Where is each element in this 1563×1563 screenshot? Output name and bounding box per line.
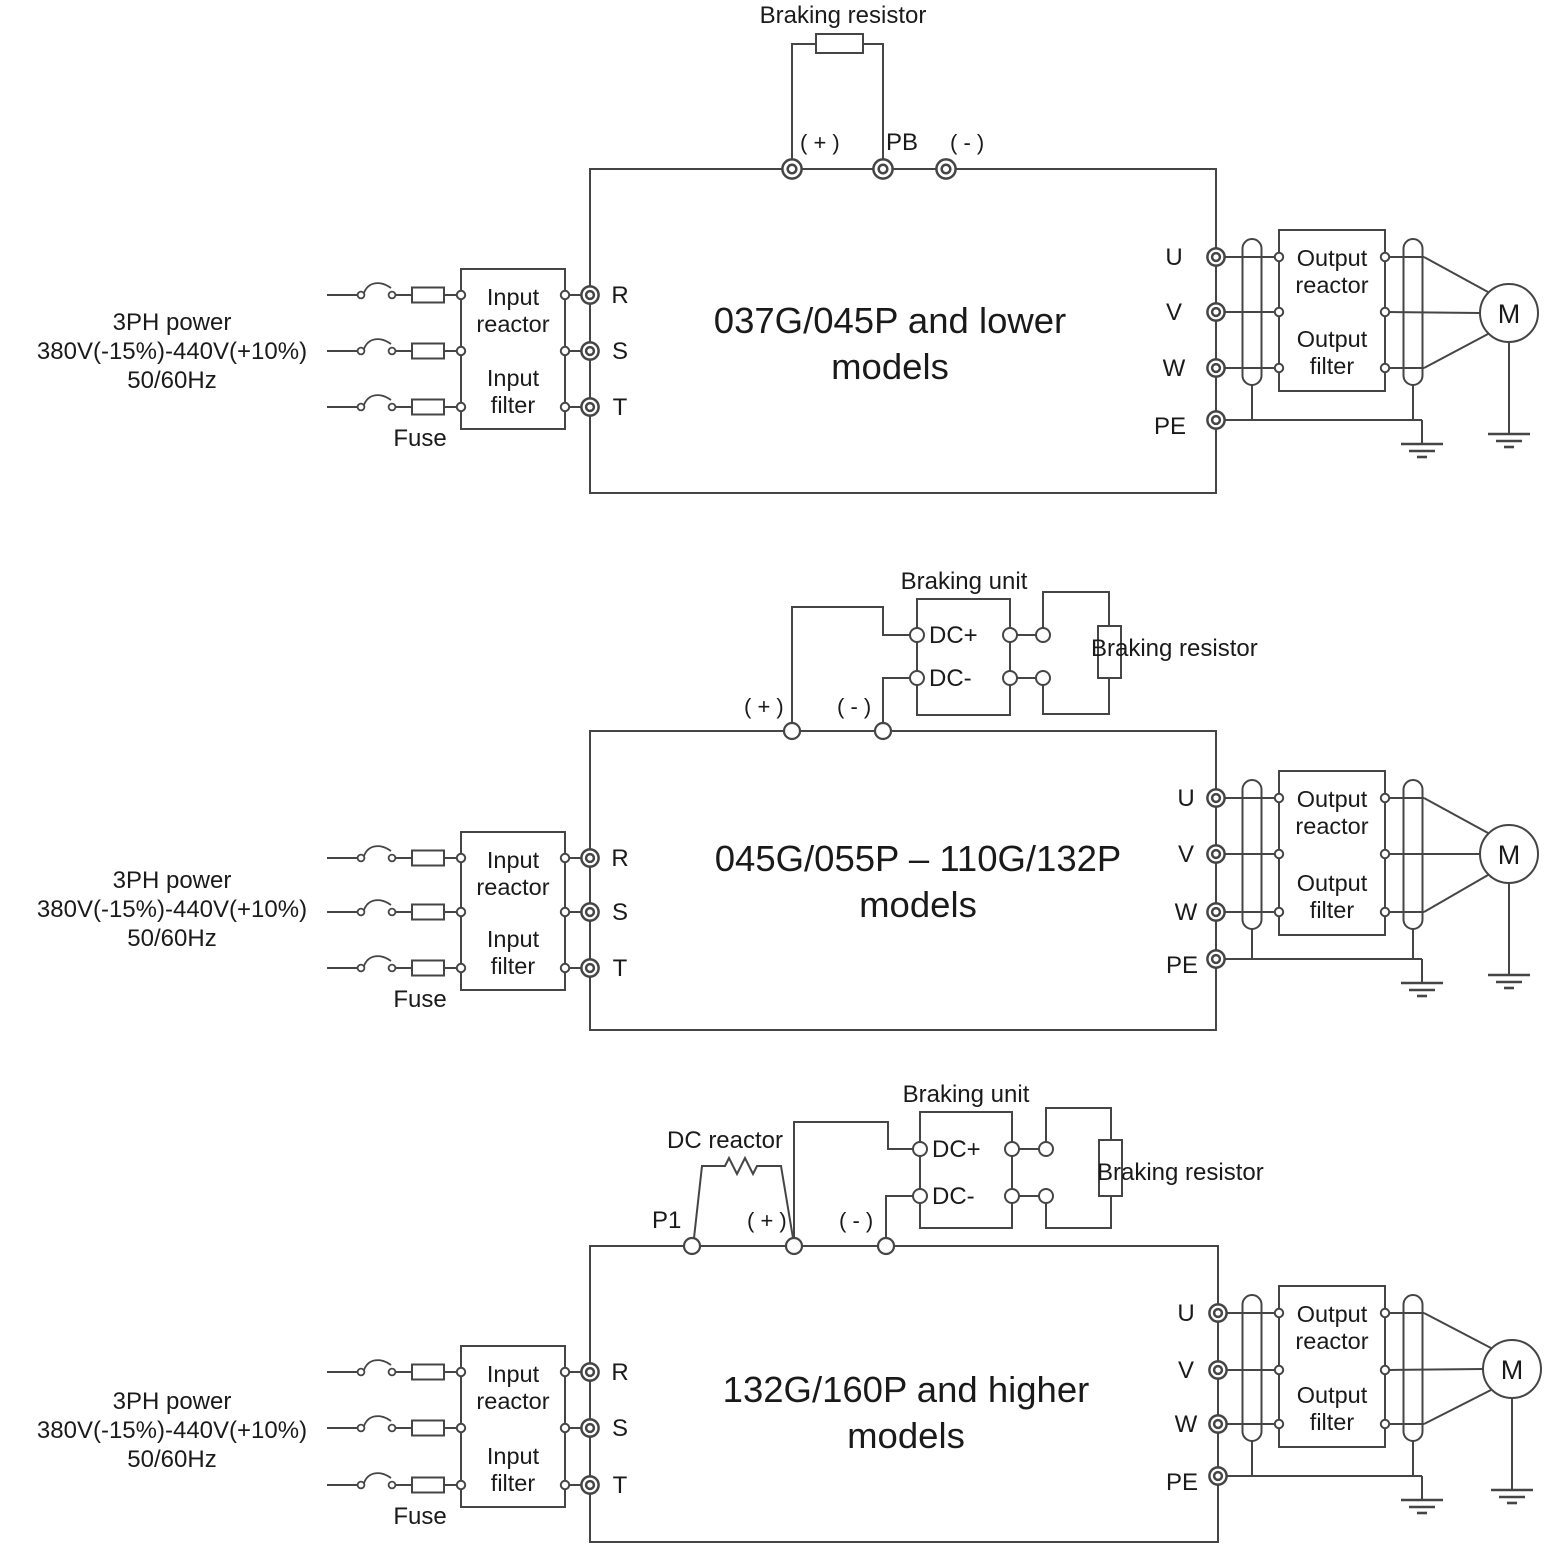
motor ground stem D3 <box>1511 1398 1513 1490</box>
svg-text:models: models <box>831 346 949 387</box>
svg-text:DC reactor: DC reactor <box>667 1127 783 1154</box>
terminal S D3 <box>581 1419 598 1436</box>
terminal (-) D1 <box>936 159 955 178</box>
wire (+) to DC+ D3 <box>794 1122 913 1238</box>
wire L2 feed D3 <box>327 1427 358 1429</box>
svg-text:DC+: DC+ <box>929 622 978 649</box>
svg-text:Input: Input <box>487 365 540 391</box>
svg-text:PE: PE <box>1166 952 1198 979</box>
svg-text:Braking resistor: Braking resistor <box>760 2 927 29</box>
breaker switch L1 D3 <box>358 1360 396 1375</box>
pin DC- D3 <box>913 1189 927 1203</box>
svg-text:Fuse: Fuse <box>393 1503 446 1530</box>
braking unit right pin bottom D3 <box>1005 1189 1019 1203</box>
svg-text:Input: Input <box>487 926 540 952</box>
breaker switch L2 D1 <box>358 339 396 354</box>
braking resistor wire left D1 <box>792 44 816 160</box>
svg-text:T: T <box>613 394 628 421</box>
braking unit right pin top D3 <box>1005 1142 1019 1156</box>
output box pin left V D3 <box>1275 1366 1283 1374</box>
inverter box D3 <box>590 1246 1218 1542</box>
output reactor/filter box D3 <box>1279 1286 1385 1447</box>
input box text D1 <box>476 284 549 418</box>
wire to terminal R D1 <box>569 294 582 296</box>
wire to terminal T D3 <box>569 1484 582 1486</box>
node (+) D3 <box>786 1238 802 1254</box>
3PH power source label D2 <box>37 867 307 952</box>
shield right drain wire D1 <box>1412 385 1414 420</box>
braking resistor loop bottom D2 <box>1043 678 1109 714</box>
resistor node bottom D3 <box>1039 1189 1053 1203</box>
breaker switch L1 D2 <box>358 846 396 861</box>
output box pin right U D1 <box>1381 253 1389 261</box>
PE wire D1 <box>1224 419 1422 421</box>
terminal V D1 <box>1207 303 1224 320</box>
PE wire D2 <box>1224 958 1422 960</box>
title D1 <box>714 300 1066 387</box>
wire (-) to DC- D3 <box>886 1196 913 1238</box>
fuse L1 D1 <box>395 288 457 303</box>
output box pin right V D3 <box>1381 1366 1389 1374</box>
svg-text:3PH power: 3PH power <box>113 867 232 894</box>
svg-text:U: U <box>1177 785 1194 812</box>
wire L3 feed D2 <box>327 967 358 969</box>
wire to terminal S D3 <box>569 1427 582 1429</box>
fuse L1 D2 <box>395 851 457 866</box>
PE ground stem D2 <box>1421 959 1423 983</box>
output box pin right W D1 <box>1381 364 1389 372</box>
svg-text:PE: PE <box>1154 413 1186 440</box>
svg-text:filter: filter <box>491 953 536 979</box>
svg-text:M: M <box>1498 840 1521 870</box>
shield left drain wire D2 <box>1251 929 1253 959</box>
braking resistor loop bottom D3 <box>1046 1196 1111 1228</box>
terminal R D3 <box>581 1363 598 1380</box>
shield left drain wire D3 <box>1251 1441 1253 1476</box>
input box pin left L1 D3 <box>457 1368 465 1376</box>
wire to terminal S D1 <box>569 350 582 352</box>
terminal R D2 <box>581 849 598 866</box>
output box pin right U D2 <box>1381 794 1389 802</box>
wire V to output box D3 <box>1226 1369 1275 1371</box>
resistor node top D3 <box>1039 1142 1053 1156</box>
terminal T D3 <box>581 1476 598 1493</box>
terminal S D1 <box>581 342 598 359</box>
svg-text:037G/045P and lower: 037G/045P and lower <box>714 300 1066 341</box>
braking resistor R D3 <box>1099 1140 1122 1196</box>
input box pin left L2 D2 <box>457 908 465 916</box>
3PH power source label D1 <box>37 309 307 394</box>
wire V to output box D2 <box>1224 853 1275 855</box>
svg-text:DC+: DC+ <box>932 1136 981 1163</box>
svg-text:V: V <box>1166 299 1182 326</box>
svg-text:Braking unit: Braking unit <box>901 568 1028 595</box>
resistor node top D2 <box>1036 628 1050 642</box>
motor ground D1 <box>1488 434 1530 447</box>
svg-text:PB: PB <box>886 129 918 156</box>
wire U to motor D3 <box>1389 1312 1424 1314</box>
input box text D3 <box>476 1361 549 1496</box>
wire U to motor D2 <box>1389 797 1424 799</box>
wire to terminal R D3 <box>569 1371 582 1373</box>
svg-text:U: U <box>1165 244 1182 271</box>
motor ground D3 <box>1491 1490 1533 1503</box>
input reactor/filter box D2 <box>461 832 565 990</box>
terminal V D3 <box>1209 1361 1226 1378</box>
PE ground D2 <box>1401 983 1443 996</box>
svg-text:filter: filter <box>491 1470 536 1496</box>
svg-text:Input: Input <box>487 284 540 310</box>
node (+) D2 <box>784 723 800 739</box>
breaker switch L3 D3 <box>358 1473 396 1488</box>
wire V to motor D3 <box>1389 1369 1483 1370</box>
wire W to output box D1 <box>1224 367 1275 369</box>
wire unit to resistor top D3 <box>1019 1148 1039 1150</box>
output box pin left W D1 <box>1275 364 1283 372</box>
svg-text:50/60Hz: 50/60Hz <box>127 367 216 394</box>
output box text D2 <box>1295 786 1368 923</box>
svg-text:filter: filter <box>1310 353 1355 379</box>
svg-text:3PH power: 3PH power <box>113 309 232 336</box>
breaker switch L1 D1 <box>358 283 396 298</box>
input box pin right L3 D3 <box>561 1481 569 1489</box>
input box pin right L1 D1 <box>561 291 569 299</box>
svg-text:Braking resistor: Braking resistor <box>1091 635 1258 662</box>
output box text D1 <box>1295 245 1368 379</box>
pin DC+ D3 <box>913 1142 927 1156</box>
output box pin right W D3 <box>1381 1420 1389 1428</box>
shield left drain wire D1 <box>1251 385 1253 420</box>
wire W to motor D1 <box>1389 367 1424 369</box>
svg-text:R: R <box>611 282 628 309</box>
output box pin left U D2 <box>1275 794 1283 802</box>
svg-text:( + ): ( + ) <box>747 1208 787 1233</box>
input box pin left L2 D3 <box>457 1424 465 1432</box>
output box pin left V D1 <box>1275 308 1283 316</box>
input box pin left L3 D3 <box>457 1481 465 1489</box>
svg-text:R: R <box>611 845 628 872</box>
output box pin left V D2 <box>1275 850 1283 858</box>
svg-text:DC-: DC- <box>929 665 972 692</box>
pin DC+ D2 <box>910 628 924 642</box>
input box pin left L3 D2 <box>457 964 465 972</box>
wire U to output box D1 <box>1224 256 1275 258</box>
breaker switch L2 D2 <box>358 900 396 915</box>
wire W to output box D2 <box>1224 911 1275 913</box>
input box pin left L3 D1 <box>457 403 465 411</box>
PE wire D3 <box>1226 1475 1422 1477</box>
svg-text:Braking unit: Braking unit <box>903 1081 1030 1108</box>
braking unit box D2 <box>917 599 1010 715</box>
fuse L3 D3 <box>395 1478 457 1493</box>
svg-text:models: models <box>847 1415 965 1456</box>
DC reactor D3 <box>694 1158 793 1238</box>
wire W to motor D3 <box>1389 1423 1424 1425</box>
motor M D1 <box>1480 284 1538 342</box>
svg-text:Output: Output <box>1297 1382 1368 1408</box>
output box pin right V D2 <box>1381 850 1389 858</box>
svg-text:3PH power: 3PH power <box>113 1388 232 1415</box>
input box pin right L3 D2 <box>561 964 569 972</box>
wire to terminal S D2 <box>569 911 582 913</box>
wire U to output box D3 <box>1226 1312 1275 1314</box>
output box pin left U D1 <box>1275 253 1283 261</box>
title D3 <box>723 1369 1090 1456</box>
svg-text:S: S <box>612 1415 628 1442</box>
svg-text:( - ): ( - ) <box>950 130 984 155</box>
terminal S D2 <box>581 903 598 920</box>
wire W to output box D3 <box>1226 1423 1275 1425</box>
wire V to motor D2 <box>1389 853 1480 855</box>
node (-) D3 <box>878 1238 894 1254</box>
terminal U D3 <box>1209 1304 1226 1321</box>
output box pin right W D2 <box>1381 908 1389 916</box>
svg-text:Braking resistor: Braking resistor <box>1097 1159 1264 1186</box>
cable shield right D1 <box>1404 239 1423 385</box>
input box pin left L2 D1 <box>457 347 465 355</box>
svg-text:( - ): ( - ) <box>837 694 871 719</box>
input box pin right L2 D3 <box>561 1424 569 1432</box>
terminal R D1 <box>581 286 598 303</box>
terminal T D1 <box>581 398 598 415</box>
PE ground D1 <box>1401 444 1443 457</box>
title D2 <box>715 838 1122 925</box>
svg-text:filter: filter <box>491 392 536 418</box>
cable shield left D2 <box>1243 780 1262 929</box>
svg-text:W: W <box>1163 355 1186 382</box>
terminal W D2 <box>1207 903 1224 920</box>
fuse L2 D1 <box>395 344 457 359</box>
braking unit right pin bottom D2 <box>1003 671 1017 685</box>
output reactor/filter box D1 <box>1279 230 1385 391</box>
output box pin left W D3 <box>1275 1420 1283 1428</box>
svg-text:filter: filter <box>1310 1409 1355 1435</box>
svg-text:Output: Output <box>1297 1301 1368 1327</box>
terminal U D2 <box>1207 789 1224 806</box>
svg-text:T: T <box>613 1472 628 1499</box>
svg-text:50/60Hz: 50/60Hz <box>127 925 216 952</box>
wire U to output box D2 <box>1224 797 1275 799</box>
terminal U D1 <box>1207 248 1224 265</box>
terminal W D1 <box>1207 359 1224 376</box>
wire L1 feed D3 <box>327 1371 358 1373</box>
svg-text:380V(-15%)-440V(+10%): 380V(-15%)-440V(+10%) <box>37 338 307 365</box>
terminal T D2 <box>581 959 598 976</box>
svg-text:M: M <box>1501 1355 1524 1385</box>
wire unit to resistor bottom D3 <box>1019 1195 1039 1197</box>
input box pin right L2 D1 <box>561 347 569 355</box>
output box pin right V D1 <box>1381 308 1389 316</box>
svg-text:Fuse: Fuse <box>393 986 446 1013</box>
input box pin right L1 D3 <box>561 1368 569 1376</box>
svg-text:Input: Input <box>487 847 540 873</box>
input box text D2 <box>476 847 549 979</box>
svg-text:W: W <box>1175 1411 1198 1438</box>
wire L2 feed D1 <box>327 350 358 352</box>
wire L2 feed D2 <box>327 911 358 913</box>
shield right drain wire D3 <box>1412 1441 1414 1476</box>
pin DC- D2 <box>910 671 924 685</box>
terminal (+) D1 <box>782 159 801 178</box>
fuse L1 D3 <box>395 1365 457 1380</box>
resistor node bottom D2 <box>1036 671 1050 685</box>
svg-text:reactor: reactor <box>1295 1328 1368 1354</box>
svg-text:R: R <box>611 1359 628 1386</box>
terminal PE D1 <box>1207 411 1224 428</box>
input box pin left L1 D1 <box>457 291 465 299</box>
svg-text:reactor: reactor <box>476 311 549 337</box>
output box pin left W D2 <box>1275 908 1283 916</box>
svg-text:( - ): ( - ) <box>839 1208 873 1233</box>
svg-text:S: S <box>612 899 628 926</box>
motor ground stem D1 <box>1508 342 1510 434</box>
svg-text:Fuse: Fuse <box>393 425 446 452</box>
braking unit box D3 <box>920 1112 1012 1228</box>
output reactor/filter box D2 <box>1279 771 1385 935</box>
svg-text:filter: filter <box>1310 897 1355 923</box>
svg-text:P1: P1 <box>652 1207 681 1234</box>
terminal PE D2 <box>1207 950 1224 967</box>
braking resistor R D2 <box>1098 626 1121 678</box>
cable shield left D3 <box>1243 1295 1262 1441</box>
motor ground stem D2 <box>1508 883 1510 975</box>
wire unit to resistor top D2 <box>1017 634 1036 636</box>
input reactor/filter box D3 <box>461 1346 565 1507</box>
wire W to motor D2 <box>1389 911 1424 913</box>
svg-text:M: M <box>1498 299 1521 329</box>
input box pin right L2 D2 <box>561 908 569 916</box>
inverter box D1 <box>590 169 1216 493</box>
svg-text:reactor: reactor <box>1295 272 1368 298</box>
svg-text:Output: Output <box>1297 786 1368 812</box>
wire to terminal R D2 <box>569 857 582 859</box>
wire to terminal T D1 <box>569 406 582 408</box>
input box pin left L1 D2 <box>457 854 465 862</box>
terminal PB D1 <box>873 159 892 178</box>
svg-text:Output: Output <box>1297 326 1368 352</box>
output box text D3 <box>1295 1301 1368 1435</box>
wire V to motor D1 <box>1389 312 1480 313</box>
svg-text:V: V <box>1178 1357 1194 1384</box>
wire unit to resistor bottom D2 <box>1017 677 1036 679</box>
input box pin right L3 D1 <box>561 403 569 411</box>
wire L3 feed D3 <box>327 1484 358 1486</box>
wire L3 feed D1 <box>327 406 358 408</box>
svg-text:models: models <box>859 884 977 925</box>
breaker switch L3 D1 <box>358 395 396 410</box>
svg-text:W: W <box>1175 899 1198 926</box>
svg-text:S: S <box>612 338 628 365</box>
fuse L3 D1 <box>395 400 457 415</box>
svg-text:132G/160P and higher: 132G/160P and higher <box>723 1369 1090 1410</box>
svg-text:reactor: reactor <box>476 874 549 900</box>
breaker switch L3 D2 <box>358 956 396 971</box>
svg-text:reactor: reactor <box>1295 813 1368 839</box>
node (-) D2 <box>875 723 891 739</box>
terminal W D3 <box>1209 1415 1226 1432</box>
svg-text:50/60Hz: 50/60Hz <box>127 1446 216 1473</box>
breaker switch L2 D3 <box>358 1416 396 1431</box>
input box pin right L1 D2 <box>561 854 569 862</box>
PE ground D3 <box>1401 1500 1443 1513</box>
wire L1 feed D2 <box>327 857 358 859</box>
svg-text:reactor: reactor <box>476 1388 549 1414</box>
inverter box D2 <box>590 731 1216 1030</box>
svg-text:PE: PE <box>1166 1469 1198 1496</box>
terminal V D2 <box>1207 845 1224 862</box>
motor ground D2 <box>1488 975 1530 988</box>
svg-text:380V(-15%)-440V(+10%): 380V(-15%)-440V(+10%) <box>37 1417 307 1444</box>
node P1 D3 <box>684 1238 700 1254</box>
braking resistor R D1 <box>816 34 863 53</box>
svg-text:( + ): ( + ) <box>744 694 784 719</box>
wire (+) to DC+ D2 <box>792 607 910 723</box>
svg-text:Input: Input <box>487 1361 540 1387</box>
fuse L2 D3 <box>395 1421 457 1436</box>
cable shield right D2 <box>1404 780 1423 929</box>
svg-text:Output: Output <box>1297 245 1368 271</box>
output box pin right U D3 <box>1381 1309 1389 1317</box>
svg-text:( + ): ( + ) <box>800 130 840 155</box>
shield right drain wire D2 <box>1412 929 1414 959</box>
svg-text:DC-: DC- <box>932 1183 975 1210</box>
fuse L3 D2 <box>395 961 457 976</box>
svg-text:380V(-15%)-440V(+10%): 380V(-15%)-440V(+10%) <box>37 896 307 923</box>
wire U to motor D1 <box>1389 256 1424 258</box>
input reactor/filter box D1 <box>461 269 565 429</box>
svg-text:T: T <box>613 955 628 982</box>
braking unit right pin top D2 <box>1003 628 1017 642</box>
cable shield left D1 <box>1243 239 1262 385</box>
svg-text:045G/055P – 110G/132P: 045G/055P – 110G/132P <box>715 838 1122 879</box>
PE ground stem D1 <box>1421 420 1423 444</box>
braking resistor loop top D2 <box>1043 592 1109 628</box>
wire to terminal T D2 <box>569 967 582 969</box>
braking resistor loop top D3 <box>1046 1108 1111 1142</box>
wire L1 feed D1 <box>327 294 358 296</box>
output box pin left U D3 <box>1275 1309 1283 1317</box>
svg-text:Output: Output <box>1297 870 1368 896</box>
PE ground stem D3 <box>1421 1476 1423 1500</box>
svg-text:U: U <box>1177 1300 1194 1327</box>
motor M D2 <box>1480 825 1538 883</box>
wire (-) to DC- D2 <box>883 678 910 723</box>
cable shield right D3 <box>1404 1295 1423 1441</box>
3PH power source label D3 <box>37 1388 307 1473</box>
svg-text:V: V <box>1178 841 1194 868</box>
braking resistor wire right D1 <box>863 44 883 160</box>
svg-text:Input: Input <box>487 1443 540 1469</box>
fuse L2 D2 <box>395 905 457 920</box>
wire V to output box D1 <box>1224 311 1275 313</box>
terminal PE D3 <box>1209 1467 1226 1484</box>
motor M D3 <box>1483 1340 1541 1398</box>
